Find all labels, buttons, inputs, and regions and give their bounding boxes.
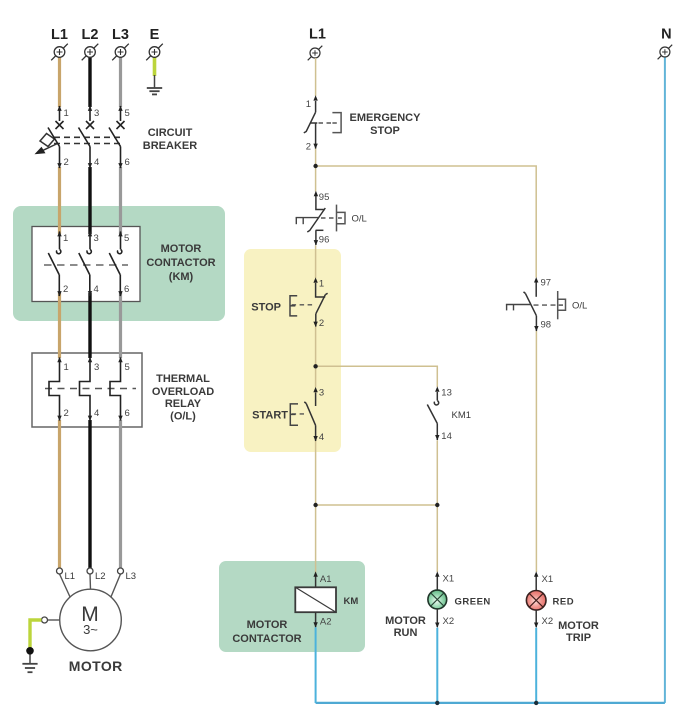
svg-text:1: 1 [63,233,68,244]
svg-text:4: 4 [94,284,99,295]
KM1 auxiliary contact (NO) [427,392,438,440]
svg-text:14: 14 [441,431,452,442]
motor lead L3 [111,568,137,598]
overload link dashed line [45,388,136,390]
MOTOR TRIP label [558,620,599,644]
svg-text:EMERGENCY: EMERGENCY [350,112,422,124]
OL1 dashed link [321,217,335,219]
svg-text:CIRCUIT: CIRCUIT [148,127,193,139]
svg-text:X1: X1 [443,574,455,585]
svg-text:MOTOR: MOTOR [558,620,599,632]
svg-text:5: 5 [125,362,130,373]
svg-text:4: 4 [319,432,324,443]
svg-text:RUN: RUN [394,627,418,639]
motor contactor label [146,243,215,283]
svg-text:6: 6 [125,157,130,168]
junction dot km1-505 [435,503,439,507]
terminal L3 [112,27,129,61]
svg-text:3~: 3~ [83,622,98,637]
breaker mechanical link dashed lines [44,137,124,143]
svg-text:95: 95 [319,192,330,203]
svg-text:1: 1 [306,99,311,110]
contactor inner white box [32,227,140,302]
svg-text:97: 97 [541,278,552,289]
breaker operating mechanism box [40,134,55,147]
thermal overload relay label [152,373,214,423]
svg-text:X2: X2 [542,616,554,627]
svg-text:3: 3 [319,388,324,399]
motor earth junction dot [26,647,34,655]
junction dot below emergency stop [313,164,317,168]
overload element 2 [80,358,91,421]
svg-text:L3: L3 [112,27,129,43]
svg-text:4: 4 [94,157,99,168]
wire branch to KM1 (tan) [316,366,438,572]
svg-text:2: 2 [64,157,69,168]
O/L label 1 [352,214,367,225]
contactor pole 2 [79,232,92,297]
svg-text:1: 1 [319,279,324,290]
motor lead L2 [87,568,106,590]
svg-text:L1: L1 [309,27,326,43]
svg-text:CONTACTOR: CONTACTOR [232,633,301,645]
stop dashed link [292,304,314,306]
svg-text:OVERLOAD: OVERLOAD [152,386,214,398]
emergency stop mushroom head symbol [332,113,341,133]
OL1 thermal actuator [296,218,319,225]
svg-text:O/L: O/L [572,301,587,312]
svg-text:98: 98 [541,320,552,331]
svg-text:L2: L2 [82,27,99,43]
EMERGENCY STOP label [350,112,422,137]
junction dot main-505 [313,503,317,507]
wire branch to OL2 (tan) [316,166,537,572]
svg-text:3: 3 [94,108,99,119]
terminal E [146,27,163,61]
motor circle M 3~ [60,589,122,651]
svg-text:RED: RED [553,597,575,608]
svg-text:2: 2 [306,142,311,153]
svg-text:MOTOR: MOTOR [69,658,123,674]
wire L1 phase (tan) segments [58,58,61,569]
svg-text:KM1: KM1 [452,410,472,421]
junction dot rail-green [435,701,439,705]
svg-text:KM: KM [344,596,359,607]
svg-text:MOTOR: MOTOR [247,619,288,631]
svg-text:L1: L1 [51,27,68,43]
wire red lamp drop (blue) [535,628,537,703]
svg-text:L1: L1 [65,571,76,582]
svg-text:6: 6 [125,408,130,419]
svg-text:MOTOR: MOTOR [385,615,426,627]
svg-text:13: 13 [441,388,452,399]
terminal L2 [82,27,99,61]
svg-text:E: E [150,27,160,43]
breaker pole 2 [79,106,95,168]
MOTOR RUN label [385,615,426,639]
O/L contact 95-96 (NC) [307,196,325,245]
wire bottom neutral rail (blue) [316,702,665,704]
RED lamp X1 pin [534,571,553,591]
svg-text:CONTACTOR: CONTACTOR [146,257,215,269]
wire control main L1 (tan) [315,58,317,574]
breaker pole 1 arrows and pins [57,106,68,169]
svg-text:GREEN: GREEN [455,597,491,608]
motor contactor coil label [232,619,301,645]
GREEN lamp X2 pin [435,609,454,628]
breaker trip arrow [35,144,58,155]
wire N neutral (blue) [664,58,666,703]
contactor pole 3 [109,232,122,297]
svg-text:6: 6 [124,284,129,295]
emergency stop dashed link [319,122,333,124]
svg-text:1: 1 [64,362,69,373]
breaker pole 1 [48,106,64,168]
svg-text:L3: L3 [126,571,137,582]
wire A2 drop (blue) [315,627,317,703]
O/L contact 97-98 (NO) [524,282,537,331]
svg-text:STOP: STOP [370,125,400,137]
motor earth terminal [42,617,60,623]
control contactor green highlight box [219,561,365,652]
stop button actuator [290,296,297,316]
overload element 3 [110,358,121,421]
control yellow highlight box (stop/start) [244,249,341,452]
motor contactor green highlight box [13,206,225,321]
RED lamp X2 pin [534,610,553,628]
MOTOR label [69,658,123,674]
terminal L1 control [308,27,326,61]
EMERGENCY STOP pushbutton (NC) [304,101,318,149]
wire green lamp drop (blue) [436,628,438,703]
KM1 label [452,410,472,421]
terminal L1 [51,27,68,61]
svg-text:RELAY: RELAY [165,398,202,410]
KM coil [295,587,358,612]
svg-text:2: 2 [319,318,324,329]
svg-text:O/L: O/L [352,214,367,225]
thermal overload relay white box [32,353,142,427]
overload element 1 [49,358,60,421]
svg-text:3: 3 [94,233,99,244]
svg-text:TRIP: TRIP [566,632,591,644]
svg-text:STOP: STOP [251,302,281,314]
ground symbol bottom (motor) [22,664,37,672]
svg-text:MOTOR: MOTOR [161,243,202,255]
junction dot stop-start [313,364,317,368]
terminal N [658,27,673,60]
wire E earth (green-yellow) [153,58,157,89]
O/L label 2 [572,301,587,312]
OL2 dashed link [534,304,557,306]
svg-text:A2: A2 [320,617,332,628]
start dashed link [292,413,304,415]
svg-text:1: 1 [64,108,69,119]
ground symbol top (E) [147,88,162,94]
svg-text:3: 3 [94,362,99,373]
svg-text:BREAKER: BREAKER [143,140,197,152]
circuit breaker label [143,127,197,152]
OL2 release symbol [558,291,566,319]
svg-text:N: N [661,27,671,43]
OL1 release symbol [337,205,346,232]
svg-text:(O/L): (O/L) [170,411,196,423]
KM coil A2 pin [313,612,331,627]
svg-text:START: START [252,410,288,422]
svg-text:5: 5 [125,108,130,119]
svg-text:4: 4 [94,408,99,419]
svg-text:2: 2 [63,284,68,295]
motor earth wire (green-yellow) [30,620,42,663]
RED lamp [526,591,574,611]
svg-text:96: 96 [319,235,330,246]
svg-text:A1: A1 [320,574,332,585]
START label [252,410,288,422]
svg-text:5: 5 [124,233,129,244]
motor lead L1 [57,568,76,598]
STOP label [251,302,281,314]
svg-text:X1: X1 [542,574,554,585]
contactor pole 1 [48,232,61,297]
STOP pushbutton (NC) [316,283,328,327]
breaker pole 3 [109,106,125,168]
wire L2 phase (black) segments [88,58,91,569]
start button actuator [290,404,298,425]
wire L3 phase (gray) segments [119,58,122,569]
svg-text:L2: L2 [95,571,106,582]
KM coil A1 pin [313,571,331,587]
junction dot rail-red [534,701,538,705]
svg-text:X2: X2 [443,616,455,627]
GREEN lamp X1 pin [435,571,454,590]
START pushbutton (NO) [304,393,315,442]
svg-text:2: 2 [64,408,69,419]
contactor link dashed line [44,264,128,266]
OL2 thermal actuator [506,305,531,311]
svg-text:(KM): (KM) [169,271,194,283]
svg-text:THERMAL: THERMAL [156,373,210,385]
